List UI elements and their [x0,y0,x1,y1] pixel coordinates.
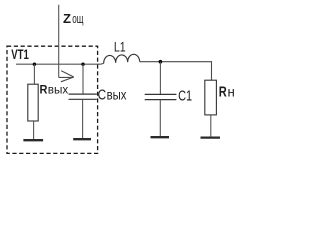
svg-text:R: R [40,83,48,97]
inductor L1 [104,54,140,63]
capacitor C1 [145,94,177,99]
wire: main horizontal rail inside box [16,62,104,65]
wire: Rвых bottom lead [33,121,35,139]
svg-text:VT1: VT1 [11,47,29,62]
wire: Свых top lead [82,64,84,94]
svg-text:вых: вых [48,84,69,97]
wire: Rн bottom lead [210,115,212,137]
svg-text:L1: L1 [114,40,126,55]
ground bar under Rвых [23,139,43,141]
resistor Rвых [28,84,38,121]
wire: Rвых top lead [33,64,35,84]
svg-text:Z: Z [63,11,71,26]
ground bar under Свых [73,138,91,140]
resistor Rн [205,80,217,115]
wire: Zощ vertical lead into box [58,5,60,78]
wire: rail from L1 to Rн corner [140,62,212,80]
svg-text:ощ: ощ [72,11,83,26]
node dot at Свых junction [81,62,84,65]
wire: C1 top lead [159,62,161,94]
ground bar under Rн [201,136,221,138]
svg-text:C1: C1 [178,88,192,105]
ground bar under C1 [151,136,170,138]
svg-text:С: С [98,87,107,104]
wire: C1 bottom lead [159,100,161,137]
svg-text:вых: вых [107,88,127,103]
wire: Свых bottom lead [82,99,84,138]
node dot at Rвых junction [33,62,36,65]
transistor equivalent-circuit dashed box VT1 [7,46,98,153]
node dot at L1/C1 junction [159,60,163,64]
svg-text:н: н [228,84,235,100]
capacitor Свых [69,94,97,99]
current-source arrow inside VT1 [59,71,74,82]
svg-text:R: R [219,84,227,101]
